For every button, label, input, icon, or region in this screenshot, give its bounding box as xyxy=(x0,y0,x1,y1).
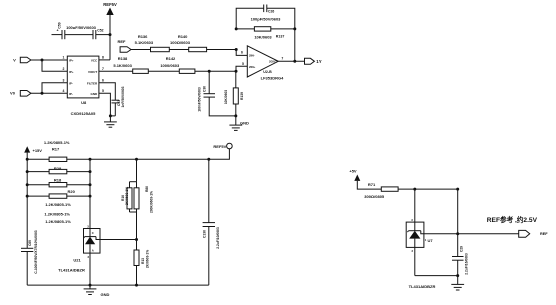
resistor R16 and R80 pair xyxy=(121,159,153,213)
node junction on REF5V rail xyxy=(109,33,112,36)
svg-text:C52: C52 xyxy=(97,29,103,33)
wire bottom rail xyxy=(27,284,209,286)
svg-text:2K/0603-1%: 2K/0603-1% xyxy=(145,250,149,268)
svg-text:+5V: +5V xyxy=(349,169,357,174)
wire pin8 to REF5V rail xyxy=(99,59,110,61)
node xyxy=(293,27,296,30)
wire xyxy=(148,70,179,72)
svg-text:VIOUT: VIOUT xyxy=(88,70,97,74)
svg-text:U8: U8 xyxy=(81,100,87,105)
capacitor C59 xyxy=(52,22,97,39)
svg-text:REF: REF xyxy=(118,39,127,44)
svg-text:2: 2 xyxy=(63,67,65,71)
svg-text:C30: C30 xyxy=(202,86,206,92)
svg-text:100nF/50V/0603: 100nF/50V/0603 xyxy=(197,87,201,112)
svg-text:TL431AIDBZR: TL431AIDBZR xyxy=(409,284,436,289)
wire xyxy=(31,92,67,94)
svg-text:6: 6 xyxy=(241,51,243,55)
svg-text:R137: R137 xyxy=(276,35,285,39)
resistor R20 xyxy=(27,189,90,198)
svg-text:GND: GND xyxy=(101,292,110,297)
svg-text:2: 2 xyxy=(88,255,90,259)
wire xyxy=(42,60,67,71)
svg-text:IP+: IP+ xyxy=(69,58,74,62)
svg-text:TL431AIDBZR: TL431AIDBZR xyxy=(58,268,85,273)
svg-text:3: 3 xyxy=(87,225,89,229)
svg-text:REF: REF xyxy=(540,232,548,236)
wire xyxy=(42,83,67,94)
resistor R138 xyxy=(113,56,148,73)
svg-text:IP+: IP+ xyxy=(69,70,74,74)
node xyxy=(234,114,237,117)
svg-text:7: 7 xyxy=(281,57,283,61)
wire xyxy=(195,70,236,72)
resistor R13 xyxy=(134,240,149,286)
svg-text:2K/0603-1%: 2K/0603-1% xyxy=(125,187,129,205)
op-amp U2-B LF353 xyxy=(241,46,284,81)
shunt regulator U21 TL431 xyxy=(58,225,136,286)
svg-text:C130: C130 xyxy=(203,230,207,238)
svg-text:3: 3 xyxy=(411,218,413,222)
svg-text:C26: C26 xyxy=(268,10,274,14)
svg-text:C29: C29 xyxy=(459,246,463,252)
svg-text:2.2uF/10/0603: 2.2uF/10/0603 xyxy=(216,227,220,249)
svg-text:R17: R17 xyxy=(52,147,60,152)
svg-text:1: 1 xyxy=(63,56,65,60)
svg-text:2IN-: 2IN- xyxy=(249,53,255,57)
connector 1Y xyxy=(305,58,322,64)
svg-text:U2-B: U2-B xyxy=(263,70,272,74)
svg-text:GND: GND xyxy=(240,120,249,125)
resistor R142 xyxy=(160,56,195,73)
power symbol REF5V xyxy=(103,2,117,60)
svg-text:GND: GND xyxy=(91,92,99,96)
power symbol +15V xyxy=(24,146,42,248)
svg-text:5: 5 xyxy=(102,89,104,93)
svg-text:2IN+: 2IN+ xyxy=(249,65,256,69)
IC U8 CXD9125A05 current sensor xyxy=(63,56,105,117)
wire right rail xyxy=(89,159,91,228)
net label REF output xyxy=(487,215,548,237)
node xyxy=(109,114,112,117)
ground GND xyxy=(84,285,110,297)
node xyxy=(456,232,459,235)
svg-text:10K/0603: 10K/0603 xyxy=(224,90,228,104)
svg-text:5.1K/0603: 5.1K/0603 xyxy=(113,63,132,68)
wire xyxy=(414,189,416,222)
shunt regulator U7 TL431 xyxy=(406,218,519,289)
svg-text:C: C xyxy=(92,231,94,235)
node xyxy=(41,59,44,62)
svg-text:2OUT: 2OUT xyxy=(269,60,277,64)
svg-text:R138: R138 xyxy=(118,56,128,61)
svg-text:R18: R18 xyxy=(54,178,62,183)
svg-text:IP-: IP- xyxy=(69,92,73,96)
wire pin5 GND xyxy=(99,93,115,116)
node xyxy=(235,48,238,51)
node xyxy=(456,274,459,277)
node junctions left rail xyxy=(26,158,29,198)
svg-text:5.1K/0603: 5.1K/0603 xyxy=(135,40,154,45)
resistor R140 xyxy=(170,34,207,52)
svg-text:CXD9125A05: CXD9125A05 xyxy=(71,111,96,116)
node xyxy=(208,70,211,73)
node xyxy=(135,284,138,287)
svg-text:R13: R13 xyxy=(141,258,145,264)
svg-text:2.2uF/16/0603: 2.2uF/16/0603 xyxy=(464,253,468,275)
capacitor C26 feedback xyxy=(236,5,295,29)
resistor R137 feedback xyxy=(236,27,295,40)
svg-text:IP-: IP- xyxy=(69,81,73,85)
svg-text:4: 4 xyxy=(63,89,65,93)
svg-text:10K/0603: 10K/0603 xyxy=(254,35,272,40)
svg-text:6: 6 xyxy=(102,79,104,83)
power symbol +5V xyxy=(349,169,381,190)
svg-text:100pF/50V/0603: 100pF/50V/0603 xyxy=(251,16,282,21)
node xyxy=(89,284,92,287)
wire pin6 FILTER xyxy=(99,83,115,100)
svg-text:R71: R71 xyxy=(368,182,376,187)
svg-text:+15V: +15V xyxy=(33,148,43,153)
node xyxy=(293,60,296,63)
connector REF xyxy=(118,39,132,52)
svg-text:1.2K/0805-1%: 1.2K/0805-1% xyxy=(45,219,71,224)
wire jog into pin6 xyxy=(236,50,247,56)
connector V xyxy=(13,57,31,63)
wire xyxy=(207,49,237,51)
resistor R18 xyxy=(27,178,90,187)
resistor R136 xyxy=(135,34,170,52)
capacitor C69 xyxy=(21,230,38,285)
ground xyxy=(451,276,464,290)
node xyxy=(135,238,138,241)
wire jog into pin5 xyxy=(236,66,247,71)
value labels xyxy=(44,202,71,224)
svg-text:300Ω/0805: 300Ω/0805 xyxy=(364,194,385,199)
svg-text:C-100NF/50V/X7R/10%/0603: C-100NF/50V/X7R/10%/0603 xyxy=(34,230,38,273)
wire xyxy=(169,49,188,51)
svg-text:+: + xyxy=(57,29,59,33)
capacitor C29 xyxy=(452,189,468,276)
wire xyxy=(136,212,138,240)
terminal REF5V xyxy=(209,143,232,159)
svg-text:R136: R136 xyxy=(138,34,148,39)
svg-text:1.2K/0805-1%: 1.2K/0805-1% xyxy=(44,212,70,217)
wire xyxy=(415,275,458,277)
resistor R29 xyxy=(27,166,90,174)
svg-text:1.2K/0805-1%: 1.2K/0805-1% xyxy=(45,202,71,207)
svg-text:R142: R142 xyxy=(166,56,176,61)
svg-text:U21: U21 xyxy=(73,258,81,263)
wire xyxy=(398,188,458,190)
node xyxy=(413,188,416,191)
svg-text:REF5V: REF5V xyxy=(213,144,226,149)
capacitor C31 xyxy=(112,86,126,116)
svg-text:V0: V0 xyxy=(10,91,16,96)
node xyxy=(456,188,459,191)
ground GND xyxy=(229,116,249,130)
svg-text:1nF/50V/0603: 1nF/50V/0603 xyxy=(121,86,125,107)
capacitor C52 xyxy=(93,29,104,40)
wire xyxy=(31,59,67,61)
node junctions right rail xyxy=(89,158,92,198)
svg-text:V: V xyxy=(13,57,16,62)
svg-text:8: 8 xyxy=(102,56,104,60)
wire feedback to output xyxy=(294,29,296,61)
node xyxy=(235,27,238,30)
wire xyxy=(131,49,151,51)
svg-text:5: 5 xyxy=(242,62,244,66)
svg-text:1.2K/0805-1%: 1.2K/0805-1% xyxy=(44,140,70,145)
wire xyxy=(65,34,93,36)
svg-text:1000/0603: 1000/0603 xyxy=(160,63,180,68)
node xyxy=(235,70,238,73)
svg-text:A: A xyxy=(92,249,94,253)
svg-text:VCC: VCC xyxy=(91,58,98,62)
wire top rail xyxy=(90,158,209,160)
resistor R71 xyxy=(364,182,398,199)
svg-text:R140: R140 xyxy=(178,34,188,39)
svg-text:C69: C69 xyxy=(28,240,32,246)
wire pin7 row xyxy=(99,70,133,72)
node xyxy=(41,92,44,95)
svg-text:1Y: 1Y xyxy=(316,59,321,64)
svg-text:200K/0603-1%: 200K/0603-1% xyxy=(149,191,153,213)
svg-text:LF353DRG4: LF353DRG4 xyxy=(261,75,284,80)
svg-text:7: 7 xyxy=(102,67,104,71)
ground xyxy=(104,116,117,127)
svg-text:REF参考 ,约2.5V: REF参考 ,约2.5V xyxy=(487,215,538,224)
svg-text:R20: R20 xyxy=(68,189,76,194)
svg-text:3: 3 xyxy=(63,79,65,83)
svg-text:REF5V: REF5V xyxy=(103,2,117,7)
capacitor C30 xyxy=(197,71,235,116)
svg-text:FILTER: FILTER xyxy=(87,81,98,85)
connector V0 xyxy=(10,91,31,97)
resistor R139 xyxy=(224,71,244,116)
resistor R17 xyxy=(27,140,90,162)
svg-text:R139: R139 xyxy=(240,92,244,100)
svg-text:100uF/50V/0603: 100uF/50V/0603 xyxy=(66,25,97,30)
svg-text:100Ω/0603: 100Ω/0603 xyxy=(170,40,191,45)
capacitor C130 xyxy=(203,159,220,285)
wire output xyxy=(278,60,304,62)
svg-text:2: 2 xyxy=(412,249,414,253)
node xyxy=(207,158,210,161)
node xyxy=(135,158,138,161)
wire xyxy=(96,34,110,36)
svg-text:U7: U7 xyxy=(428,238,434,243)
svg-text:1: 1 xyxy=(425,238,427,242)
